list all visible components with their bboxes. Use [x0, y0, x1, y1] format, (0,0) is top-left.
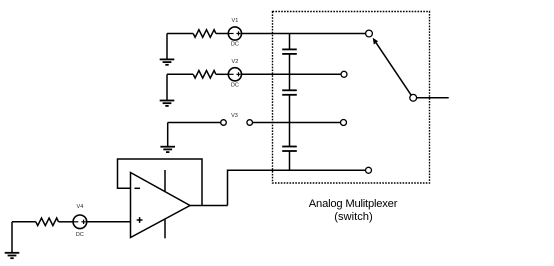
switch arm: [373, 38, 412, 95]
capacitor C2: [282, 90, 297, 95]
terminal V3 left: [221, 113, 238, 125]
wire V2 to terminal 2: [242, 73, 342, 75]
wire R2 to V2: [216, 73, 228, 75]
ground GND1: [160, 34, 175, 65]
terminal node 2: [341, 71, 347, 77]
terminal common: [410, 94, 417, 101]
op-amp U1: [131, 170, 191, 238]
label multiplexer: [309, 198, 398, 223]
resistor R1: [193, 30, 216, 38]
wire row1 left: [167, 33, 193, 35]
resistor R2: [193, 71, 216, 79]
svg-text:V2: V2: [232, 59, 239, 65]
svg-text:DC: DC: [76, 232, 84, 238]
dc source V2: [228, 59, 241, 89]
svg-text:V3: V3: [231, 113, 238, 119]
wire V3 to terminal 3: [253, 122, 341, 124]
resistor R3: [36, 218, 59, 226]
terminal V3 right: [247, 120, 253, 126]
wire row3 left: [168, 122, 221, 124]
wire cap chain seg D: [289, 151, 291, 170]
wire R3 to V4: [59, 221, 74, 223]
terminal node 1: [366, 30, 373, 37]
svg-text:Analog Mulitplexer: Analog Mulitplexer: [309, 198, 398, 210]
svg-text:V1: V1: [232, 18, 239, 24]
wire row2 left: [167, 73, 193, 75]
dc source V4: [73, 204, 87, 238]
wire common output: [417, 97, 449, 99]
wire V4 left: [12, 221, 36, 223]
wire V4 to op-amp: [87, 221, 131, 223]
terminal node 3: [341, 120, 347, 126]
wire cap chain seg B: [289, 54, 291, 90]
wire R1 to V1: [216, 33, 228, 35]
terminal node 4: [366, 167, 372, 173]
analog multiplexer box: [273, 12, 430, 184]
wire cap chain seg A: [289, 34, 291, 50]
wire feedback loop: [118, 159, 203, 206]
capacitor C3: [282, 147, 297, 152]
dc source V1: [228, 18, 241, 48]
capacitor C1: [282, 49, 297, 54]
svg-text:DC: DC: [231, 42, 239, 48]
wire cap chain seg C: [289, 95, 291, 146]
wire op-amp output: [190, 205, 228, 207]
wire V1 to terminal 1: [242, 33, 366, 35]
ground GND2: [160, 74, 175, 106]
ground GND4: [5, 222, 20, 258]
svg-text:DC: DC: [231, 82, 239, 88]
wire output to terminal 4: [228, 170, 366, 205]
svg-text:(switch): (switch): [334, 211, 373, 223]
svg-text:V4: V4: [77, 204, 84, 210]
ground GND3: [160, 123, 175, 153]
